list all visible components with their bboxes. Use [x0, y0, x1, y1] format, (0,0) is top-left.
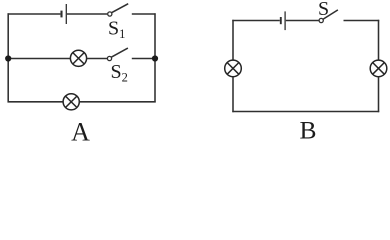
- lamp L1 (middle branch): [70, 50, 86, 66]
- junction node: left: [5, 55, 11, 61]
- wire: switch S2 to right junction: [132, 58, 155, 60]
- battery cell in circuit B: [281, 11, 285, 30]
- lamp L4 (circuit B right): [370, 60, 387, 77]
- battery cell in circuit A: [62, 4, 67, 24]
- wire: circuit B right vertical lower: [378, 77, 380, 113]
- lamp L2 (bottom rail): [63, 94, 79, 110]
- wire: circuit B left vertical upper: [232, 20, 234, 60]
- wire: circuit B right vertical upper: [378, 20, 380, 60]
- wire: circuit B top rail, left segment: [232, 20, 279, 22]
- wire: bottom rail left segment: [8, 101, 64, 103]
- wire: circuit A right vertical: [154, 13, 156, 102]
- wire: switch S to top-right corner: [344, 20, 380, 22]
- switch S2: [107, 48, 128, 61]
- svg-text:A: A: [71, 117, 90, 141]
- svg-text:S1: S1: [108, 17, 125, 41]
- wire: circuit A left vertical: [7, 13, 9, 102]
- wire: circuit A top rail, left segment: [8, 13, 61, 15]
- wire: middle branch left segment: [8, 58, 71, 60]
- wire: battery to switch S: [286, 20, 319, 22]
- wire: circuit B left vertical lower: [232, 77, 234, 113]
- wire: lamp L1 to switch S2: [87, 58, 108, 60]
- wire: circuit B bottom rail: [232, 111, 379, 113]
- svg-text:B: B: [299, 116, 316, 141]
- switch S: [319, 10, 338, 23]
- wire: lamp L2 to bottom-right corner: [79, 101, 155, 103]
- svg-text:S: S: [318, 0, 329, 20]
- junction node: right: [152, 55, 158, 61]
- wire: battery to switch S1: [67, 13, 107, 15]
- switch S1: [108, 4, 128, 16]
- wire: switch S1 to top-right corner: [132, 13, 156, 15]
- lamp L3 (circuit B left): [225, 60, 242, 77]
- svg-text:S2: S2: [111, 61, 128, 85]
